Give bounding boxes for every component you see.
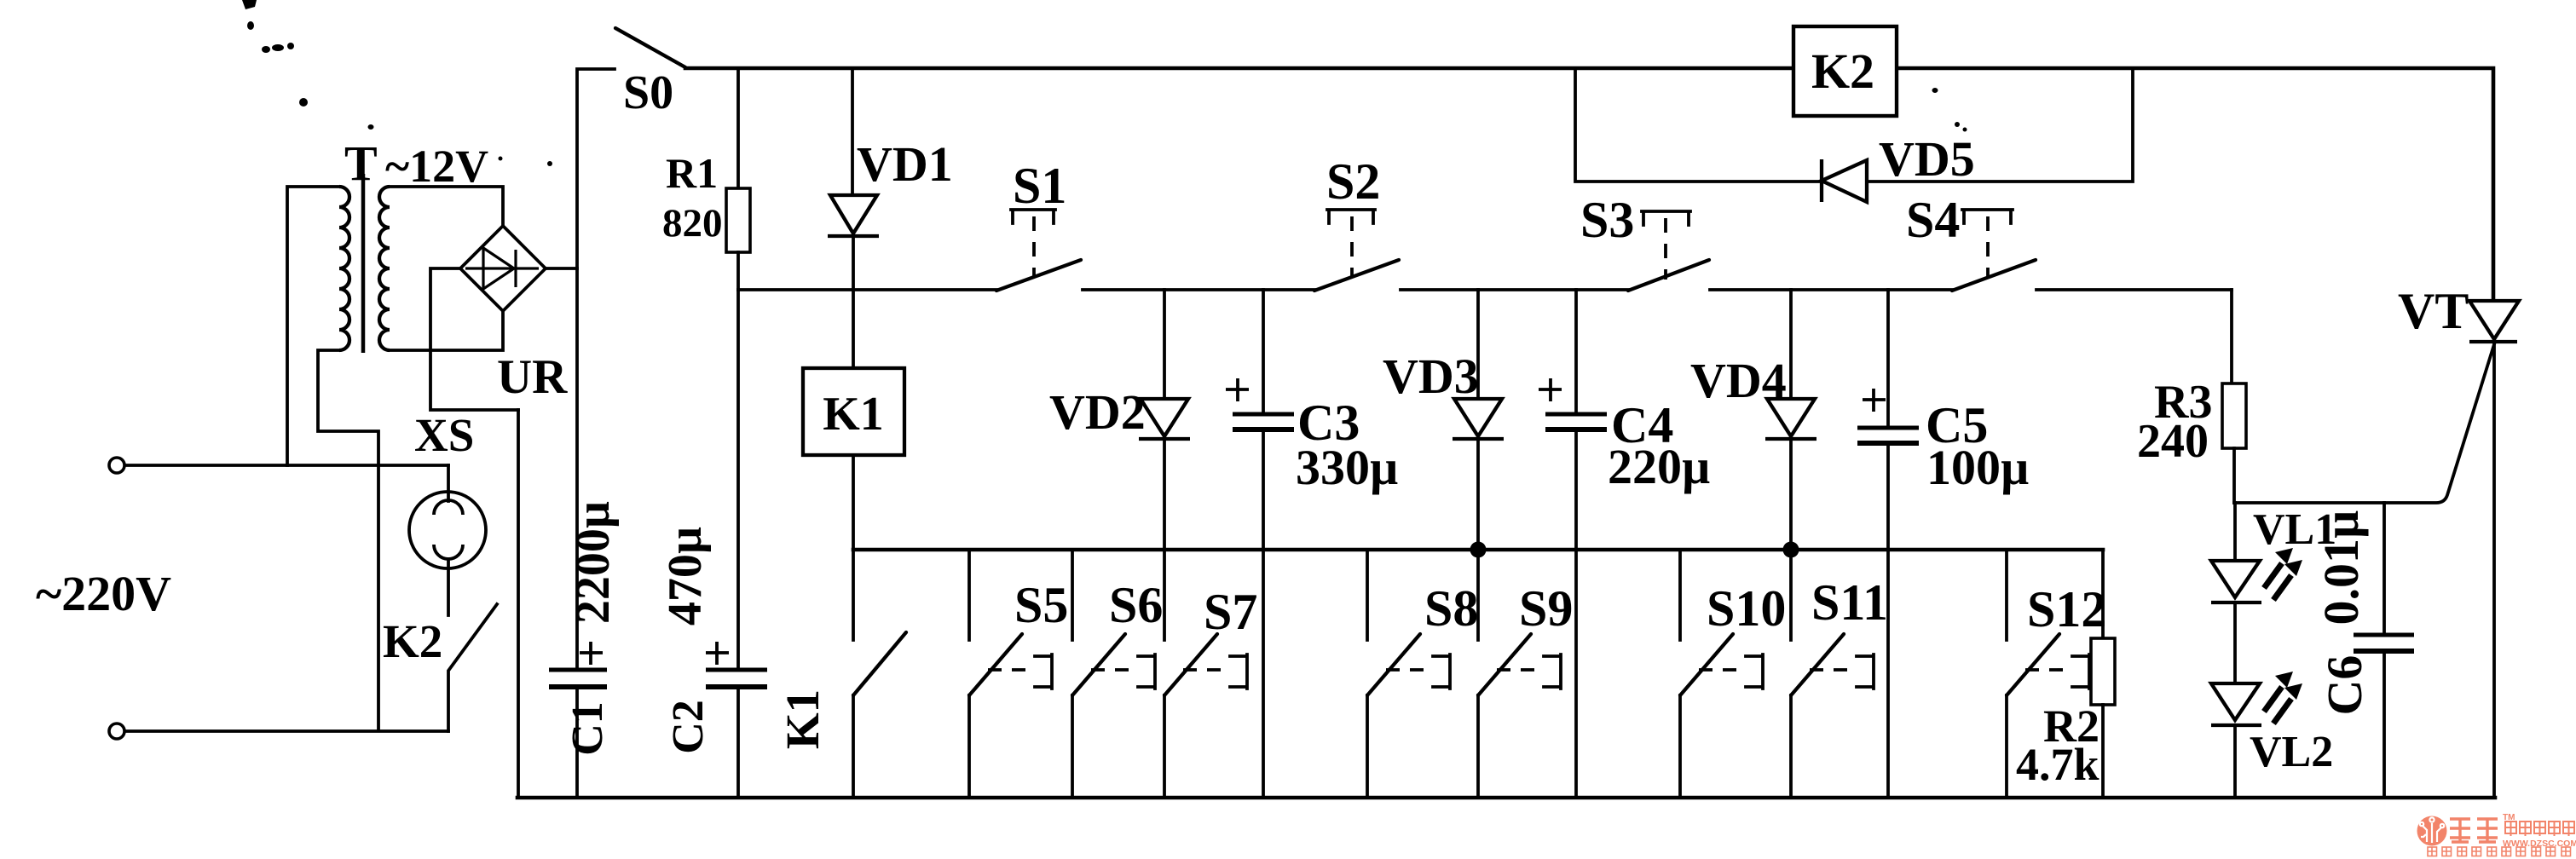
svg-text:S4: S4: [1906, 192, 1960, 248]
junction dot VD4/bus3: [1783, 542, 1799, 558]
svg-text:T: T: [344, 135, 378, 191]
svg-text:4.7k: 4.7k: [2016, 739, 2099, 790]
svg-text:0.01µ: 0.01µ: [2313, 510, 2369, 626]
svg-text:S1: S1: [1013, 158, 1066, 214]
bridge rectifier UR: [460, 226, 546, 311]
svg-text:330µ: 330µ: [1296, 440, 1398, 495]
LED VL1: [2233, 503, 2237, 561]
diode VD4: [1789, 290, 1793, 399]
diode VD1: [851, 68, 854, 195]
svg-text:2200µ: 2200µ: [567, 501, 620, 624]
svg-text:220µ: 220µ: [1608, 439, 1710, 494]
svg-text:K2: K2: [1811, 43, 1874, 99]
svg-text:C1: C1: [563, 701, 612, 756]
switch S2: [1327, 210, 1375, 223]
relay contact K1: [853, 632, 906, 695]
switch S12: [2005, 550, 2008, 640]
capacitor C3: [1262, 290, 1265, 414]
svg-text:240: 240: [2137, 415, 2209, 468]
svg-text:C6: C6: [2317, 655, 2372, 716]
relay coil K1: [803, 368, 904, 455]
svg-text:~220V: ~220V: [36, 566, 171, 621]
wire: UR right output to positive rail: [546, 267, 577, 270]
switch S11: [1791, 634, 1844, 695]
wire: UR left output to negative rail: [430, 268, 518, 410]
svg-text:S2: S2: [1326, 153, 1380, 210]
wire: primary left lead: [287, 187, 339, 465]
svg-text:VD4: VD4: [1690, 353, 1787, 408]
svg-text:S12: S12: [2027, 581, 2106, 637]
switch S6: [1071, 550, 1074, 640]
terminal: mains input top: [109, 458, 124, 473]
svg-text:100µ: 100µ: [1926, 440, 2029, 495]
svg-text:S8: S8: [1424, 580, 1478, 637]
svg-text:K1: K1: [823, 388, 884, 441]
capacitor C5: [1886, 290, 1890, 428]
svg-text:C2: C2: [664, 700, 713, 754]
watermark logo 维库电子市场网: [2417, 813, 2576, 856]
svg-text:VL2: VL2: [2250, 728, 2333, 776]
wire: control bus: [738, 288, 2232, 291]
switch S10: [1678, 550, 1682, 640]
diode VD5: [1820, 159, 1823, 202]
svg-text:S5: S5: [1014, 577, 1068, 633]
switch S0: [577, 69, 615, 669]
capacitor C2: [736, 290, 740, 670]
relay coil K2: [1793, 26, 1897, 116]
resistor R3: [2230, 290, 2233, 383]
wire: gate node (R3 to VT gate, C6 tap): [2234, 344, 2494, 503]
svg-text:VD2: VD2: [1049, 384, 1146, 440]
transformer T core: [361, 174, 366, 353]
switch S8: [1366, 550, 1369, 640]
wire: secondary top lead: [390, 187, 503, 226]
scan noise specks: [242, 0, 257, 9]
wire: top supply bus: [685, 68, 2493, 301]
svg-text:~12V: ~12V: [385, 141, 488, 192]
wire: mains bottom line: [125, 729, 448, 733]
capacitor C4: [1574, 290, 1578, 414]
relay contact K2 (mains switch): [448, 604, 497, 731]
switch S3: [1642, 211, 1690, 225]
junction dot VD3/bus3: [1470, 542, 1487, 558]
wire: K2/VD5 loop right: [1868, 68, 2133, 182]
switch S5: [967, 550, 971, 640]
svg-text:S9: S9: [1519, 580, 1573, 637]
resistor R1: [736, 68, 740, 188]
wire: secondary bottom lead: [390, 311, 503, 350]
svg-text:S11: S11: [1811, 574, 1888, 631]
transformer T primary winding: [339, 187, 349, 350]
switch S9: [1478, 634, 1531, 695]
svg-text:S7: S7: [1204, 584, 1257, 640]
diode VD3: [1476, 290, 1480, 399]
capacitor C6: [2383, 503, 2386, 635]
svg-text:R1: R1: [666, 149, 718, 197]
svg-text:K1: K1: [777, 689, 829, 749]
capacitor C1: [549, 668, 607, 672]
svg-text:S10: S10: [1707, 580, 1786, 637]
wire: negative rail down to bottom bus: [517, 410, 520, 798]
switch S7: [1164, 634, 1217, 695]
svg-text:S6: S6: [1109, 577, 1163, 633]
switch S4: [1962, 210, 2013, 223]
thyristor VT: [2469, 301, 2519, 339]
svg-text:VD3: VD3: [1383, 349, 1479, 404]
wire: bottom return bus: [517, 796, 2495, 800]
svg-text:UR: UR: [497, 350, 568, 404]
svg-text:VT: VT: [2398, 283, 2469, 339]
svg-text:VD1: VD1: [857, 136, 953, 192]
svg-text:S3: S3: [1580, 192, 1634, 248]
transformer T secondary winding: [379, 187, 390, 350]
switch S1: [1011, 210, 1055, 223]
svg-text:820: 820: [662, 201, 723, 245]
wire: selector bus (bus3): [853, 548, 2103, 552]
resistor R2: [2101, 550, 2105, 638]
svg-text:K2: K2: [383, 615, 442, 667]
LED VL2: [2211, 683, 2260, 720]
svg-text:VD5: VD5: [1879, 131, 1975, 187]
socket XS: [409, 492, 486, 568]
terminal: mains input bottom: [109, 724, 124, 739]
wire: K2/VD5 loop left: [1575, 68, 1822, 182]
wire: K1 coil to bus3 and contact stub: [852, 455, 855, 640]
svg-text:470µ: 470µ: [659, 527, 712, 626]
svg-text:S0: S0: [623, 66, 673, 119]
wire: mains top line: [125, 464, 448, 467]
svg-text:XS: XS: [414, 409, 474, 461]
diode VD2: [1163, 290, 1166, 399]
wire: primary bottom lead (staircase to mains bottom): [318, 350, 378, 729]
